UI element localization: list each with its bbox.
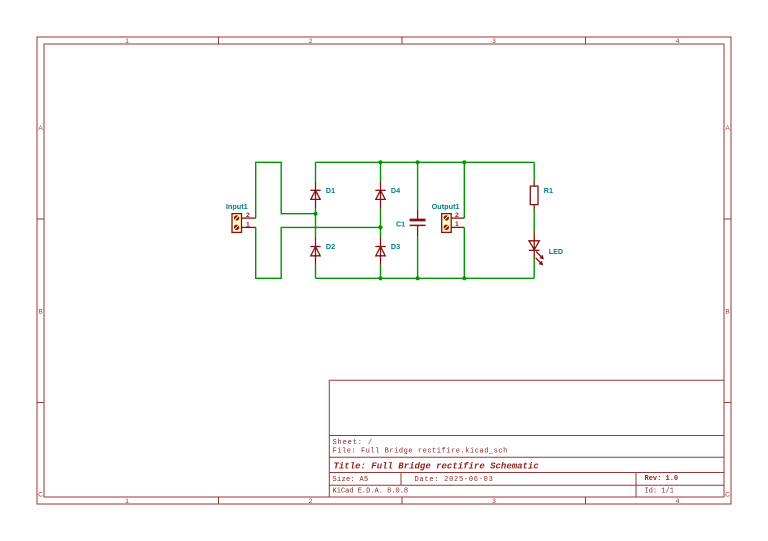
- diode D2: [310, 237, 320, 265]
- label D3: [391, 242, 400, 251]
- svg-text:4: 4: [676, 498, 680, 505]
- wire D4 column stubs: [380, 162, 382, 227]
- diode D4: [375, 181, 385, 208]
- connector Input1: [232, 214, 256, 233]
- wire top rail: [316, 161, 535, 163]
- svg-text:A: A: [38, 125, 43, 132]
- wire D2 column stubs: [315, 214, 317, 279]
- svg-text:3: 3: [492, 38, 496, 45]
- svg-text:D3: D3: [391, 242, 400, 251]
- svg-text:C: C: [725, 491, 730, 498]
- junction node output top: [462, 160, 466, 164]
- svg-text:D1: D1: [326, 186, 335, 195]
- wire D3 column stubs: [380, 227, 382, 278]
- wire output column stubs: [463, 162, 465, 278]
- pin number Output1-1: [455, 221, 459, 228]
- svg-text:2: 2: [246, 212, 250, 219]
- wire input pin2 loop: [256, 162, 316, 218]
- svg-text:C: C: [38, 491, 43, 498]
- svg-text:Sheet: /: Sheet: /: [333, 439, 373, 447]
- svg-text:Date: 2025-06-03: Date: 2025-06-03: [415, 476, 494, 484]
- junction node output bottom: [462, 276, 466, 280]
- wire D1 column stubs: [315, 162, 317, 213]
- label LED: [549, 247, 563, 256]
- diode D1: [310, 181, 320, 208]
- svg-text:3: 3: [492, 498, 496, 505]
- svg-text:Rev: 1.0: Rev: 1.0: [645, 475, 679, 483]
- wire input pin1 loop: [256, 227, 381, 278]
- wire bottom rail: [316, 277, 535, 279]
- pin number Output1-2: [455, 212, 459, 219]
- svg-text:Title: Full Bridge rectifire S: Title: Full Bridge rectifire Schematic: [334, 461, 540, 471]
- pin number Input1-1: [246, 221, 250, 228]
- junction node D4 top: [378, 160, 382, 164]
- svg-text:B: B: [725, 308, 729, 315]
- diode D3: [375, 237, 385, 265]
- svg-text:B: B: [38, 308, 42, 315]
- label D1: [326, 186, 335, 195]
- wire C1 column stubs: [417, 162, 419, 278]
- svg-text:C1: C1: [396, 220, 405, 229]
- svg-text:LED: LED: [549, 247, 563, 256]
- svg-text:Output1: Output1: [432, 202, 460, 211]
- svg-text:D4: D4: [391, 186, 400, 195]
- wire R1-LED column stubs: [533, 162, 535, 278]
- junction node C1 bottom: [416, 276, 420, 280]
- svg-text:1: 1: [125, 38, 129, 45]
- connector Output1: [442, 214, 465, 233]
- resistor R1: [530, 181, 538, 210]
- label C1: [396, 220, 405, 229]
- junction node C1 top: [416, 160, 420, 164]
- svg-text:1: 1: [246, 221, 250, 228]
- junction node D3 bottom: [378, 276, 382, 280]
- junction node D4-D3 AC: [378, 225, 382, 229]
- svg-text:2: 2: [309, 498, 313, 505]
- svg-text:R1: R1: [544, 186, 553, 195]
- label D4: [391, 186, 400, 195]
- svg-text:File: Full Bridge rectifire.ki: File: Full Bridge rectifire.kicad_sch: [333, 448, 508, 456]
- svg-text:1: 1: [455, 221, 459, 228]
- svg-text:4: 4: [676, 38, 680, 45]
- svg-text:D2: D2: [326, 242, 335, 251]
- svg-text:2: 2: [455, 212, 459, 219]
- svg-text:2: 2: [309, 38, 313, 45]
- svg-text:1: 1: [125, 498, 129, 505]
- capacitor C1: [410, 209, 426, 236]
- pin number Input1-2: [246, 212, 250, 219]
- label Output1: [432, 202, 460, 211]
- svg-text:KiCad E.D.A. 8.0.8: KiCad E.D.A. 8.0.8: [333, 487, 409, 495]
- junction node D1-D2 AC: [313, 212, 317, 216]
- LED LED1: [529, 232, 543, 265]
- label Input1: [226, 202, 248, 211]
- svg-text:Size: A5: Size: A5: [333, 476, 369, 484]
- label R1: [544, 186, 553, 195]
- svg-text:Input1: Input1: [226, 202, 248, 211]
- label D2: [326, 242, 335, 251]
- svg-text:A: A: [725, 125, 730, 132]
- svg-text:Id: 1/1: Id: 1/1: [645, 487, 674, 495]
